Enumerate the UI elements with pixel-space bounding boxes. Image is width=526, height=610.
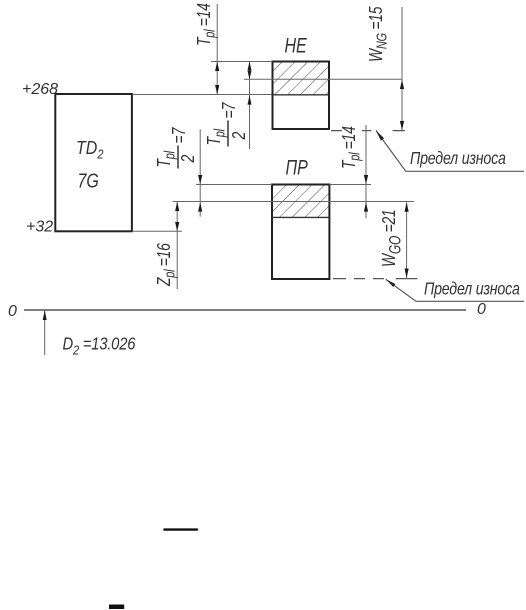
svg-text:Tpl =14: Tpl =14 (338, 126, 363, 169)
svg-text:7G: 7G (78, 170, 99, 192)
gauge PR middle line (173, 201, 414, 203)
dimension Tpl/2 PR vertical line (199, 129, 201, 216)
wire +32 extension line (132, 230, 182, 232)
svg-text:2: 2 (177, 155, 199, 164)
svg-text:Предел износа: Предел износа (410, 149, 506, 169)
svg-text:ПР: ПР (286, 155, 309, 179)
dimension Tpl/2 NE vertical line (249, 62, 251, 150)
stray dash mark (164, 528, 197, 530)
svg-text:=7: =7 (218, 102, 240, 119)
svg-text:Tpl: Tpl (203, 128, 228, 145)
svg-text:Tpl: Tpl (153, 150, 178, 167)
svg-text:Tpl =14: Tpl =14 (193, 3, 218, 46)
wear limit PR dashed line (333, 278, 417, 280)
svg-text:Zpl =16: Zpl =16 (153, 242, 178, 286)
svg-text:НЕ: НЕ (285, 33, 308, 57)
svg-text:D2 =13.026: D2 =13.026 (63, 334, 137, 357)
svg-text:0: 0 (477, 301, 486, 318)
gauge NE hatched tolerance zone (273, 62, 330, 95)
svg-text:2: 2 (228, 132, 250, 141)
gauge NE middle line (244, 78, 402, 80)
gauge PR top extension line left (196, 184, 272, 186)
dimension WNG=15 vertical line (401, 7, 403, 130)
gauge PR hatch bottom line (272, 216, 329, 218)
label Tpl/2=7 NE fraction (203, 102, 250, 147)
gauge PR hatched tolerance zone (272, 185, 329, 218)
svg-text:TD2: TD2 (76, 137, 104, 162)
wire NE top extension line (211, 61, 273, 63)
gauge PR rectangle (272, 185, 329, 280)
zero line (24, 309, 466, 311)
svg-text:0: 0 (8, 303, 17, 320)
gauge NE rectangle (273, 62, 330, 130)
svg-text:Предел износа: Предел износа (424, 279, 520, 299)
gauge PR top extension line right (329, 184, 371, 186)
svg-text:=7: =7 (168, 127, 190, 144)
svg-text:+32: +32 (26, 219, 53, 236)
tolerance field TD2 7G rectangle (55, 94, 132, 231)
dimension D2 vertical line (44, 310, 46, 355)
stray bottom bar (109, 605, 124, 610)
dimension WGO=21 vertical line (406, 202, 408, 278)
leader lower Предел износа (386, 279, 524, 301)
leader upper Предел износа (376, 131, 524, 172)
svg-text:+268: +268 (22, 81, 58, 98)
gauge NE hatch bottom line (273, 94, 330, 96)
dimension Tpl=14 PR vertical line (365, 125, 367, 218)
wear limit NE dashed line (331, 130, 405, 132)
dimension Zpl=16 vertical line (176, 202, 178, 290)
wire +268 extension line (132, 94, 273, 96)
svg-text:WGO =21: WGO =21 (378, 210, 405, 267)
svg-text:WNG =15: WNG =15 (365, 6, 390, 62)
label Tpl/2=7 PR fraction (153, 127, 199, 169)
dimension Tpl=14 NE vertical line (216, 4, 218, 95)
